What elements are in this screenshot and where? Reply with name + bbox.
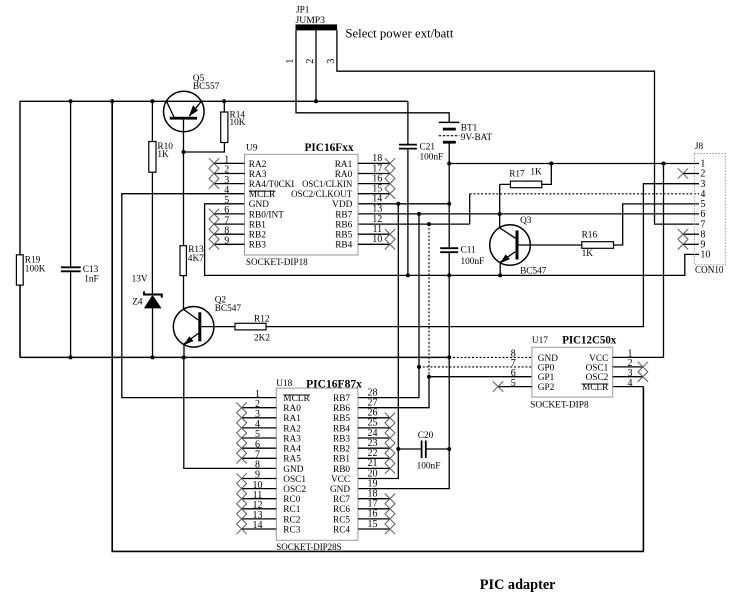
svg-text:GND: GND — [538, 354, 558, 364]
svg-text:RA3: RA3 — [283, 434, 301, 444]
svg-text:RA0: RA0 — [283, 404, 301, 414]
svg-text:RB3: RB3 — [249, 241, 266, 251]
J8 pin 6 — [700, 209, 705, 220]
U9 pin 13 RB7 — [335, 204, 382, 221]
svg-text:OSC2: OSC2 — [586, 373, 609, 383]
wire U17 GP2 stub — [493, 381, 532, 391]
U18 pin 1 MCLR — [255, 389, 310, 404]
JP1 pin 3 number — [326, 59, 337, 64]
junction gnd rail / C21 — [406, 273, 410, 277]
label C20 value — [417, 431, 441, 472]
svg-text:1nF: 1nF — [84, 275, 98, 285]
junction top rail / R10 — [150, 99, 154, 103]
junction top rail / C13 — [69, 99, 73, 103]
J8 pin 2 — [678, 168, 706, 179]
wire JP1 pin2 to VCC rail — [315, 30, 317, 101]
label U18 socket — [276, 542, 341, 552]
wire RB6 riser dashed — [428, 224, 430, 377]
wire JP1 pin1 to battery positive — [296, 30, 449, 122]
resistor R17 — [510, 181, 541, 188]
wire Q3 base to R16 — [519, 244, 582, 246]
label Z4 value — [132, 275, 148, 308]
svg-text:13V: 13V — [132, 275, 148, 285]
wire top VCC rail — [20, 101, 408, 357]
connector JP1 bar — [296, 24, 338, 30]
svg-text:OSC2/CLKOUT: OSC2/CLKOUT — [291, 190, 352, 200]
label C21 value — [420, 143, 444, 163]
zener diode Z4 — [144, 291, 162, 308]
label C11 value — [461, 246, 485, 267]
svg-text:2K2: 2K2 — [254, 333, 270, 343]
wire J8 pin3 to R12 — [266, 184, 699, 327]
svg-text:GND: GND — [330, 485, 350, 495]
wire U17 VCC to J8 pin1 rail — [613, 164, 664, 358]
svg-text:PIC16Fxx: PIC16Fxx — [305, 140, 354, 154]
svg-text:Select power ext/batt: Select power ext/batt — [345, 27, 453, 41]
wire R17 left lead to Q3 collector — [500, 184, 511, 227]
svg-text:1K: 1K — [582, 249, 594, 259]
junction VDD / VCC riser — [396, 202, 400, 206]
U9 pin 1 RA2 — [209, 155, 267, 170]
svg-text:RA1: RA1 — [335, 160, 353, 170]
svg-text:R17: R17 — [509, 170, 525, 180]
U18 pin 5 RA3 — [236, 429, 301, 444]
svg-text:15: 15 — [368, 519, 378, 530]
junction riser / C20 right — [447, 447, 451, 451]
U17 pin 1 VCC — [589, 349, 632, 364]
wire Q2 emitter to rail — [183, 344, 185, 358]
svg-text:VCC: VCC — [589, 354, 608, 364]
junction gnd rail / C11 — [447, 273, 451, 277]
wire C21 top lead — [407, 101, 409, 144]
svg-text:RB4: RB4 — [333, 424, 350, 434]
label J8 — [695, 142, 704, 152]
wire GP0 row to U17 — [419, 366, 532, 368]
U18 pin 3 RA1 — [236, 409, 301, 424]
junction Q5 base node — [182, 150, 186, 154]
label R14 value — [230, 111, 246, 128]
transistor Q3 BC547 — [490, 225, 531, 266]
JP1 pin 1 number — [285, 59, 296, 64]
wire U9 MCLR to U18 MCLR — [122, 194, 276, 398]
svg-text:RC5: RC5 — [333, 515, 350, 525]
svg-text:3: 3 — [326, 59, 337, 64]
svg-text:U9: U9 — [246, 144, 258, 154]
wire R17 right lead — [542, 164, 552, 185]
svg-text:RB1: RB1 — [333, 455, 350, 465]
svg-text:SOCKET-DIP8: SOCKET-DIP8 — [530, 400, 589, 410]
IC U9 PIC16Fxx box — [245, 154, 359, 255]
wire RB6 riser to U18 pin27 — [358, 377, 429, 408]
capacitor C21 — [399, 145, 417, 149]
svg-text:OSC1/CLKIN: OSC1/CLKIN — [302, 180, 352, 190]
transistor Q5 BC557 — [164, 91, 205, 152]
junction gnd rail / Q3 emitter — [498, 273, 502, 277]
svg-text:RC4: RC4 — [333, 525, 350, 535]
J8 pin 1 — [700, 159, 705, 170]
resistor R16 — [582, 242, 614, 249]
label Q2 — [215, 296, 242, 314]
svg-text:PIC12C50x: PIC12C50x — [562, 333, 616, 347]
U18 pin 13 RC2 — [236, 510, 300, 525]
label R10 value — [157, 142, 173, 160]
label BT1 value — [461, 124, 493, 144]
svg-text:PIC adapter: PIC adapter — [480, 577, 556, 593]
U9 pin 4 MCLR — [224, 185, 276, 200]
wire GP1 row to U17 — [429, 376, 532, 378]
J8 pin 7 — [700, 219, 705, 230]
wire C21 bottom lead — [407, 149, 409, 276]
svg-text:10K: 10K — [230, 118, 246, 128]
svg-text:RB2: RB2 — [249, 231, 266, 241]
wire R12 to Q2 base — [201, 326, 235, 328]
U17 pin 6 GP1 — [511, 368, 555, 383]
wire R19 bottom lead — [19, 285, 21, 357]
wire RB7 riser to U18 pin28 — [358, 214, 419, 398]
svg-text:2: 2 — [305, 59, 316, 64]
U17 pin 7 GP0 — [511, 358, 555, 373]
junction top rail / JP1 pin2 — [314, 99, 318, 103]
svg-text:GND: GND — [283, 465, 303, 475]
U18 pin 10 OSC2 — [236, 480, 306, 495]
label R19 value — [25, 256, 46, 275]
U18 pin 28 RB7 — [333, 387, 377, 404]
svg-text:14: 14 — [253, 520, 263, 531]
wire J8 pin4 row — [470, 193, 699, 195]
resistor R14 — [221, 112, 228, 143]
U9 pin 9 RB3 — [209, 236, 266, 251]
U18 pin 15 RC4 — [333, 519, 395, 536]
resistor R13 — [180, 246, 186, 276]
svg-text:C21: C21 — [420, 143, 436, 153]
svg-text:100nF: 100nF — [417, 462, 441, 472]
J8 pin 5 — [700, 199, 705, 210]
svg-text:RB1: RB1 — [249, 221, 266, 231]
svg-text:RB5: RB5 — [335, 231, 352, 241]
svg-text:SOCKET-DIP28S: SOCKET-DIP28S — [276, 542, 341, 552]
J8 pin 8 — [678, 229, 706, 240]
svg-text:RA2: RA2 — [249, 160, 267, 170]
wire RB7 net U9 to J8 pin6 — [358, 213, 699, 215]
svg-text:100nF: 100nF — [461, 257, 485, 267]
svg-text:RA3: RA3 — [249, 170, 267, 180]
junction RB7 riser / GP0 wire — [417, 365, 421, 369]
wire U9 GND to gnd rail to J8 pin10 — [205, 204, 699, 276]
wire U9 VDD to battery riser — [358, 203, 449, 205]
U18 pin 18 RC7 — [333, 489, 395, 506]
svg-text:10: 10 — [372, 234, 382, 245]
connector J8 box — [694, 154, 725, 265]
capacitor C20 — [422, 441, 426, 459]
junction rail / R17 — [549, 162, 553, 166]
wire R13 to Q2 collector — [183, 276, 185, 310]
label U17 — [532, 336, 548, 346]
label R13 value — [188, 245, 204, 264]
capacitor C13 — [61, 267, 81, 271]
junction top rail / R14 — [222, 99, 226, 103]
resistor R10 — [149, 142, 156, 173]
svg-text:BC547: BC547 — [520, 267, 547, 277]
U18 pin 19 GND — [330, 478, 378, 495]
svg-text:U17: U17 — [532, 336, 548, 346]
svg-text:1K: 1K — [157, 150, 169, 160]
U18 pin 20 VCC — [331, 468, 378, 485]
svg-text:100K: 100K — [25, 265, 46, 275]
U17 pin 2 OSC1 — [586, 358, 633, 373]
wire VCC riser to U18 pin20 — [358, 204, 398, 479]
svg-text:C20: C20 — [418, 431, 434, 441]
svg-text:100nF: 100nF — [420, 152, 444, 162]
U9 pin 3 RA4/T0CKI — [209, 175, 294, 190]
label U9 — [246, 144, 258, 154]
svg-text:RC2: RC2 — [283, 515, 300, 525]
svg-text:1: 1 — [285, 59, 296, 64]
junction rail / Z4 — [151, 355, 155, 359]
U18 pin 4 RA2 — [236, 419, 301, 434]
wire C20 right lead — [426, 448, 449, 450]
svg-text:RA4: RA4 — [283, 445, 301, 455]
svg-text:RA0: RA0 — [335, 170, 353, 180]
U18 pin 16 RC5 — [333, 509, 395, 526]
U17 pin 3 OSC2 — [586, 368, 633, 383]
U17 pin 8 GND — [511, 349, 558, 364]
svg-text:Z4: Z4 — [132, 298, 143, 308]
wire RB6 riser to J8 pin4 row — [469, 194, 471, 224]
U9 pin 17 RA0 — [335, 163, 395, 180]
svg-text:RC7: RC7 — [333, 495, 350, 505]
U9 pin 11 RB5 — [335, 224, 395, 241]
label C13 value — [83, 265, 99, 284]
junction RB6 / U18 riser — [427, 222, 431, 226]
U17 pin 4 MCLR — [582, 378, 633, 393]
wire Q5 base node to R13 — [183, 152, 185, 246]
svg-text:Q3: Q3 — [520, 216, 532, 226]
svg-text:RA1: RA1 — [283, 414, 301, 424]
J8 pin 10 — [700, 250, 710, 261]
svg-text:OSC2: OSC2 — [283, 485, 306, 495]
svg-text:GND: GND — [249, 200, 269, 210]
battery BT1 — [439, 122, 460, 163]
U17 pin 5 GP2 — [511, 378, 555, 393]
connector JP1 labels — [296, 6, 326, 26]
wire JP1 pin3 to J8 pin7 — [337, 30, 699, 224]
U9 pin 15 OSC2/CLKOUT — [291, 184, 395, 201]
wire R10 to Z4 cathode — [151, 172, 153, 294]
svg-text:JUMP3: JUMP3 — [296, 16, 326, 26]
svg-text:RB0: RB0 — [333, 465, 350, 475]
wire Q5 base to R14 bottom — [184, 143, 225, 153]
wire Q3 emitter to gnd rail — [499, 262, 501, 275]
svg-text:RC3: RC3 — [283, 525, 300, 535]
svg-text:RA2: RA2 — [283, 424, 301, 434]
wire Z4 anode to ground rail — [152, 308, 154, 357]
svg-text:GP0: GP0 — [538, 363, 555, 373]
IC U17 PIC12C50x box — [532, 347, 613, 397]
wire rail to U18 GND pin8 — [184, 357, 276, 468]
U18 pin 9 OSC1 — [236, 470, 306, 485]
transistor Q2 BC547 — [173, 307, 214, 348]
U18 pin 17 RC6 — [333, 499, 395, 516]
svg-text:4: 4 — [628, 378, 633, 389]
junction RB6 riser / GP1 wire — [427, 375, 431, 379]
svg-text:RA5: RA5 — [283, 455, 301, 465]
label U9 title — [305, 140, 354, 154]
wire C13 branch — [70, 101, 72, 357]
J8 pin 4 — [700, 189, 705, 200]
U9 pin 2 RA3 — [209, 165, 267, 180]
svg-text:J8: J8 — [695, 142, 704, 152]
svg-text:RB5: RB5 — [333, 414, 350, 424]
U18 pin 22 RB1 — [333, 448, 395, 465]
capacitor C11 — [440, 248, 458, 252]
U9 pin 14 VDD — [332, 194, 382, 211]
label Q3 — [520, 216, 547, 277]
wire U17 MCLR stub — [613, 386, 644, 388]
junction rail / C13 — [69, 355, 73, 359]
wire U17 OSC2 stub — [613, 372, 648, 382]
U9 pin 6 RB0/INT — [209, 205, 284, 220]
U18 pin 23 RB2 — [333, 438, 395, 455]
label U9 socket — [246, 257, 308, 267]
svg-text:U18: U18 — [276, 379, 292, 389]
text select power note — [345, 27, 453, 41]
junction rail / C11 riser — [447, 355, 451, 359]
wire VCC riser to bottom rail to U17 MCLR — [112, 101, 643, 551]
wire R14 top lead — [223, 101, 225, 112]
U9 pin 18 RA1 — [335, 153, 395, 170]
svg-text:1K: 1K — [530, 168, 542, 178]
svg-text:RB7: RB7 — [335, 210, 352, 220]
U9 pin 7 RB1 — [209, 215, 266, 230]
wire U17 OSC1 stub — [613, 362, 648, 372]
svg-text:RB2: RB2 — [333, 445, 350, 455]
svg-text:RB6: RB6 — [333, 404, 350, 414]
U9 pin 8 RB2 — [209, 225, 266, 240]
svg-text:RB0/INT: RB0/INT — [249, 210, 284, 220]
svg-text:9V-BAT: 9V-BAT — [461, 133, 493, 143]
wire R10 top lead — [151, 101, 153, 141]
U9 pin 16 OSC1/CLKIN — [302, 173, 395, 190]
label Q5 — [193, 74, 220, 92]
U18 pin 2 RA0 — [236, 399, 301, 414]
svg-text:4K7: 4K7 — [188, 254, 204, 264]
wire R16 to J8 pin5 — [614, 204, 700, 245]
U9 pin 10 RB4 — [335, 234, 395, 251]
label R17 value — [509, 168, 542, 180]
junction rail / battery — [447, 162, 451, 166]
label U18 title — [306, 376, 362, 390]
svg-text:RB4: RB4 — [335, 241, 352, 251]
svg-text:BC547: BC547 — [215, 304, 242, 314]
svg-text:VDD: VDD — [332, 200, 352, 210]
svg-text:RA4/T0CKI: RA4/T0CKI — [249, 180, 294, 190]
svg-text:R16: R16 — [582, 231, 598, 241]
U18 pin 26 RB5 — [333, 408, 395, 425]
label U18 — [276, 379, 292, 389]
svg-text:OSC1: OSC1 — [283, 475, 306, 485]
wire C11 riser lower to U18 pin19 — [358, 252, 449, 488]
U18 pin 24 RB3 — [333, 428, 395, 445]
junction rail / Q2 emitter — [182, 355, 186, 359]
U18 pin 27 RB6 — [333, 398, 377, 415]
svg-text:9: 9 — [224, 236, 229, 247]
label U17 title — [562, 333, 616, 347]
label R12 value — [254, 314, 270, 343]
JP1 pin 2 number — [305, 59, 316, 64]
label U17 socket — [530, 400, 589, 410]
resistor R19 — [16, 255, 23, 285]
svg-text:C11: C11 — [461, 246, 477, 256]
junction RB7 / U18 riser — [417, 212, 421, 216]
svg-text:10: 10 — [700, 250, 710, 261]
U18 pin 8 GND — [255, 460, 304, 475]
svg-text:GP2: GP2 — [538, 383, 555, 393]
junction VCC riser / C20 — [396, 447, 400, 451]
svg-text:JP1: JP1 — [296, 6, 310, 16]
U9 pin 12 RB6 — [335, 214, 382, 231]
resistor R12 — [235, 323, 266, 330]
svg-text:SOCKET-DIP18: SOCKET-DIP18 — [246, 257, 308, 267]
junction RB7 wire / Q3 collector — [498, 212, 502, 216]
wire C20 left lead — [398, 448, 421, 450]
wire RB6 net U9 row — [358, 223, 470, 225]
svg-text:BT1: BT1 — [461, 124, 478, 134]
svg-text:PIC16F87x: PIC16F87x — [306, 376, 362, 390]
svg-text:OSC1: OSC1 — [586, 363, 609, 373]
label R16 value — [582, 231, 598, 259]
U18 pin 21 RB0 — [333, 458, 395, 475]
U18 pin 7 RA5 — [236, 450, 301, 465]
wire bottom left ground rail to U17 GND — [20, 356, 532, 358]
svg-text:RB7: RB7 — [333, 394, 350, 404]
svg-text:RC0: RC0 — [283, 495, 300, 505]
wire battery to J8 pin1 rail — [449, 163, 699, 165]
svg-text:GP1: GP1 — [538, 373, 555, 383]
junction VDD / battery riser — [447, 202, 451, 206]
U18 pin 11 RC0 — [236, 490, 300, 505]
svg-text:RC6: RC6 — [333, 505, 350, 515]
label J8 type — [695, 265, 724, 276]
svg-text:CON10: CON10 — [695, 265, 724, 276]
svg-text:R12: R12 — [254, 314, 270, 324]
wire battery riser upper — [448, 164, 450, 249]
U18 pin 25 RB4 — [333, 418, 395, 435]
IC U18 PIC16F87x box — [276, 388, 358, 540]
J8 pin 9 — [678, 239, 706, 250]
junction top rail / bottom riser — [110, 99, 114, 103]
U9 pin 5 GND — [224, 195, 269, 210]
U18 pin 14 RC3 — [236, 520, 300, 535]
svg-text:RC1: RC1 — [283, 505, 300, 515]
svg-text:RB6: RB6 — [335, 221, 352, 231]
label schematic title — [480, 577, 556, 593]
svg-text:VCC: VCC — [331, 475, 350, 485]
J8 pin 3 — [700, 179, 705, 190]
svg-text:BC557: BC557 — [193, 82, 220, 92]
U18 pin 6 RA4 — [236, 439, 301, 454]
svg-text:RB3: RB3 — [333, 434, 350, 444]
junction rail / U17 VCC riser — [662, 162, 666, 166]
U18 pin 12 RC1 — [236, 500, 300, 515]
